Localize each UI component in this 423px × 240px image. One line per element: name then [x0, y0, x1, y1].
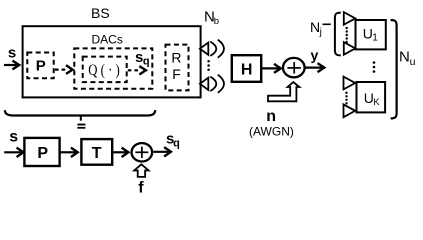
- wire s to P (bottom): [4, 148, 23, 157]
- tick from N_j to bracket: [323, 23, 331, 25]
- users bracket N_u: [391, 20, 397, 118]
- adder (+) top: [283, 58, 305, 77]
- svg-text:j: j: [319, 27, 322, 38]
- user K antenna bottom: [344, 104, 356, 117]
- svg-text:F: F: [172, 66, 181, 82]
- user 1 antenna top: [344, 12, 356, 25]
- wire s_q out of quantizer (dashed arrow): [128, 66, 146, 74]
- noise block arrow n into adder: [268, 82, 299, 101]
- base station box: [23, 26, 201, 97]
- label N_j: [310, 19, 322, 38]
- wire P to T: [61, 148, 78, 157]
- dots between users: [373, 61, 376, 73]
- svg-text:K: K: [373, 97, 380, 108]
- svg-text:q: q: [173, 138, 180, 150]
- wire P to DACs (dashed arrow): [55, 65, 73, 74]
- svg-text:n: n: [266, 108, 276, 125]
- svg-text:u: u: [410, 56, 416, 68]
- svg-text:(AWGN): (AWGN): [249, 125, 294, 139]
- user U1 box: [356, 20, 386, 49]
- label =: [77, 124, 85, 129]
- wire s input arrow: [4, 61, 19, 70]
- svg-text:Q ( · ): Q ( · ): [88, 62, 120, 79]
- underbrace: [5, 110, 155, 121]
- svg-text:N: N: [310, 19, 320, 35]
- user 1 antenna dots: [346, 27, 348, 43]
- user 1 antenna bottom: [344, 42, 356, 55]
- user 1 antenna bracket: [335, 13, 341, 56]
- wire y output of adder: [305, 63, 324, 72]
- BS antenna 1 (top): [200, 40, 224, 58]
- wire H to adder: [262, 64, 281, 73]
- svg-text:s: s: [8, 44, 16, 61]
- svg-text:R: R: [171, 49, 181, 65]
- block arrow f into adder: [134, 164, 148, 177]
- adder (+) bottom: [132, 143, 153, 161]
- svg-text:N: N: [399, 48, 410, 65]
- label s_q: [135, 49, 150, 67]
- quantizer Q(·) dashed box: [83, 57, 127, 83]
- RF chain box (dashed): [166, 45, 189, 91]
- wire adder to s_q output: [153, 147, 171, 156]
- channel H box: [232, 55, 261, 82]
- svg-text:P: P: [37, 145, 48, 162]
- label s_q (bottom): [166, 131, 180, 150]
- user UK box: [357, 82, 386, 112]
- label N_u: [399, 48, 416, 67]
- block T: [81, 139, 112, 165]
- svg-text:s: s: [9, 128, 18, 145]
- DACs box (dashed): [74, 33, 152, 89]
- svg-text:H: H: [241, 62, 253, 79]
- svg-text:b: b: [214, 16, 219, 27]
- svg-text:y: y: [311, 47, 319, 63]
- user K antenna dots: [345, 92, 347, 105]
- user K antenna top: [344, 77, 356, 90]
- svg-text:BS: BS: [91, 5, 110, 21]
- precoder P (dashed box): [27, 53, 53, 79]
- svg-text:f: f: [138, 179, 144, 196]
- dots between BS antennas: [207, 60, 210, 71]
- wire T to adder: [113, 148, 128, 157]
- BS antenna 2 (bottom): [200, 75, 224, 93]
- svg-text:q: q: [143, 56, 150, 68]
- svg-text:T: T: [92, 145, 102, 162]
- svg-text:DACs: DACs: [92, 33, 123, 47]
- label N_b: [204, 8, 219, 27]
- block P (bottom): [24, 138, 59, 166]
- svg-text:1: 1: [372, 32, 378, 43]
- svg-text:P: P: [36, 57, 46, 74]
